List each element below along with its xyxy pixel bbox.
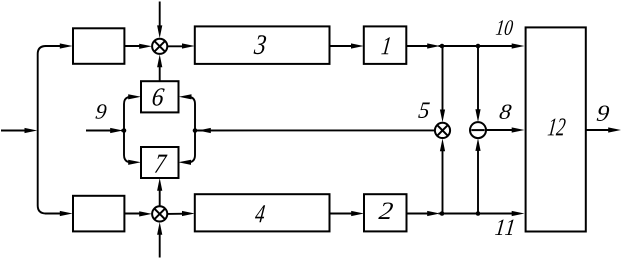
wire W8: block 3 to block 1 <box>330 43 364 48</box>
block 6 <box>141 81 179 112</box>
wire W13: multiplier 5 output feedback line to risers <box>195 128 435 133</box>
wire W26: J5 up into multiplier 5 <box>440 139 445 214</box>
wire W25: block 2 to block 12 (net 11) <box>407 211 525 216</box>
label 7 <box>155 155 168 173</box>
block 4 <box>195 194 330 231</box>
node J3 (feedback junction right riser) <box>193 128 198 133</box>
wire W22: external input into M2 (from bottom edge) <box>157 222 162 258</box>
multiplier M1 (circle-X, top) <box>152 39 167 54</box>
label 10 <box>496 20 514 35</box>
wire W19: multiplier M2 up into block 7 <box>157 178 162 206</box>
wire W16: input 9 (middle left) <box>86 128 124 133</box>
wire W11: J2 down into subtractor <box>475 46 480 122</box>
block B (unlabeled, bottom left) <box>73 196 124 232</box>
label 11 <box>495 220 514 235</box>
wire W2: input branch vertical <box>38 46 46 214</box>
wire W27: J6 up into subtractor <box>475 138 480 213</box>
label 6 <box>152 88 165 105</box>
block 2 <box>364 194 407 231</box>
node J6 (bottom line, x=478) <box>476 211 481 216</box>
multiplier M2 (circle-X, bottom) <box>152 206 167 221</box>
wire W14: right riser to block 6 input <box>179 94 195 130</box>
wire W3: branch to block A <box>45 43 73 48</box>
node J2 (top line, x=478) <box>476 44 481 49</box>
wire W6: block 6 output up into M1 <box>157 54 162 81</box>
wire W17: left riser to block 6 input <box>124 94 141 130</box>
wire W20: branch to block B <box>45 211 73 216</box>
wire W1: system input (left edge) <box>1 128 37 133</box>
wire W7: M1 to block 3 <box>167 43 195 48</box>
label 12 <box>548 118 566 135</box>
multiplier 5 (circle-X, middle) <box>435 123 450 138</box>
block 3 <box>195 26 330 64</box>
node J4 (input 9 junction left riser) <box>122 128 127 133</box>
wire W10: J1 down into multiplier 5 <box>440 46 445 122</box>
node J1 (top line, x=442) <box>440 44 445 49</box>
wire W21: block B to multiplier M2 <box>124 211 152 216</box>
wire W23: M2 to block 4 <box>167 211 195 216</box>
wire W24: block 4 to block 2 <box>330 211 365 216</box>
wire W5: external input into M1 (from top edge) <box>157 2 162 39</box>
label 1 <box>381 37 390 54</box>
wire W4: block A to multiplier M1 <box>124 44 152 49</box>
wire W12: subtractor to block 12 (net 8) <box>486 127 525 132</box>
wire W28: system output (net 9) <box>586 127 621 132</box>
block 12 <box>526 27 586 231</box>
subtractor (circle-minus) <box>470 122 486 138</box>
label 5 <box>418 102 430 118</box>
label 2 <box>378 203 393 219</box>
block 1 <box>364 26 407 64</box>
wire W18: left riser to block 7 input <box>124 131 141 165</box>
label 3 <box>253 35 266 54</box>
label 9 (middle input) <box>95 104 107 119</box>
label 9 (output) <box>597 105 610 121</box>
wire W15: right riser to block 7 input <box>178 131 195 165</box>
block A (unlabeled, top left) <box>73 28 124 64</box>
label 4 <box>254 205 265 222</box>
wire W9: block 1 to block 12 (net 10) <box>406 43 524 48</box>
node J5 (bottom line, x=442) <box>440 211 445 216</box>
block 7 <box>141 147 179 178</box>
label 8 <box>499 104 512 118</box>
